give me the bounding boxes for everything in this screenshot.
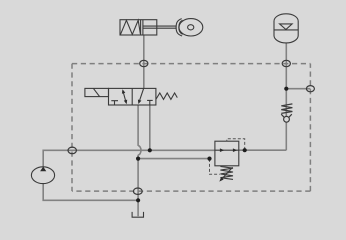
wire: check valve branch down to reducing valve outlet level xyxy=(285,89,287,151)
junction: accumulator / check valve / P3 xyxy=(284,87,288,91)
check valve seat xyxy=(281,114,292,120)
arrowhead down-left (right position) xyxy=(138,100,142,105)
wire: valve bottom-left port down to crossing hop xyxy=(137,105,139,146)
junction: pilot tap at outlet xyxy=(243,148,247,152)
adjustment arrowhead xyxy=(219,177,223,182)
port P1 (top edge, to brake cylinder) xyxy=(140,60,148,66)
pressure reducing valve body xyxy=(215,141,239,166)
junction: valve to pressure line xyxy=(148,148,152,152)
reducing valve flow arrowhead 1 xyxy=(220,148,224,152)
junction: drain to tank line xyxy=(207,157,211,161)
cylinder piston rod xyxy=(143,26,177,28)
reducing valve flow path line xyxy=(215,149,239,151)
manifold boundary (dashed enclosure) xyxy=(72,64,310,192)
lever actuator box xyxy=(85,88,109,96)
drain line (dashed) from spring chamber to tank line xyxy=(210,159,220,174)
left position flow path (double arrow) xyxy=(123,91,126,103)
right position blocked port T xyxy=(147,100,153,105)
check valve ball xyxy=(284,116,290,122)
directional valve V1 body (3/2-way) xyxy=(109,88,156,105)
valve position divider xyxy=(131,88,133,105)
wire: check-valve junction to right edge port P3 xyxy=(286,88,310,90)
pump flow direction triangle xyxy=(40,167,46,172)
check valve spring xyxy=(281,104,292,114)
pump P (fixed displacement) xyxy=(31,167,54,184)
valve return spring xyxy=(156,93,177,99)
arrowhead down (left position) xyxy=(124,100,127,105)
reducing valve flow arrowhead 2 xyxy=(233,148,237,152)
right position flow path diagonal xyxy=(140,89,144,101)
cylinder return spring xyxy=(121,20,141,34)
wire: tank return line down through port P5 to reservoir xyxy=(137,155,139,217)
brake drum hub xyxy=(188,25,194,30)
wire: tank return branch to reducing valve drain junction xyxy=(138,158,209,160)
lever actuator diagonal xyxy=(93,88,99,96)
tank reservoir symbol xyxy=(132,212,143,217)
pilot line (dashed) from outlet to valve top xyxy=(227,139,245,150)
reducing valve adjustment arrow shaft xyxy=(221,167,233,180)
brake cylinder C1 body (spring-return, single acting) xyxy=(120,20,157,35)
port P2 (top edge, to accumulator) xyxy=(282,60,290,66)
port P4 (left edge, pressure inlet from pump) xyxy=(68,147,76,154)
left position blocked port T xyxy=(111,101,118,105)
junction: tank return branch xyxy=(136,157,140,161)
wire: accumulator stem down to check-valve junction xyxy=(285,43,287,89)
brake drum wheel xyxy=(179,19,203,36)
port P3 (right edge) xyxy=(306,86,314,92)
brake shoe xyxy=(176,19,183,36)
arrowhead up (left position) xyxy=(122,89,125,94)
cylinder piston xyxy=(141,20,143,35)
wire: pump outlet up and right to manifold inlet P4 and reducing valve inlet xyxy=(43,150,215,167)
accumulator shell xyxy=(274,14,298,43)
reducing valve adjustable spring xyxy=(220,166,233,179)
wire: pump suction line to reservoir junction xyxy=(43,184,138,201)
wire: crossing hop over pressure line xyxy=(138,146,141,155)
port P5 (bottom edge, tank return) xyxy=(133,188,142,194)
accumulator separator line xyxy=(274,29,298,31)
accumulator gas symbol (triangle) xyxy=(280,24,293,30)
wire: cylinder port to valve top port (through port P1) xyxy=(143,35,145,88)
wire: reducing valve outlet to check valve riser xyxy=(239,149,286,151)
junction: pump suction at reservoir xyxy=(136,198,140,202)
wire: valve bottom-right port down to pressure line junction xyxy=(149,105,151,150)
